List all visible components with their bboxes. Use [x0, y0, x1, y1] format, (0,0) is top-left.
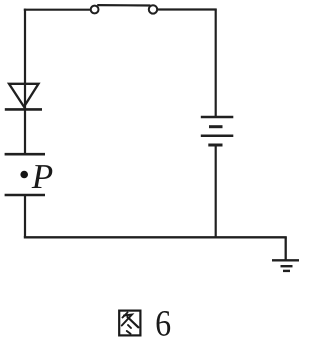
switch S right terminal circle [149, 5, 157, 13]
ground bar 2 [281, 265, 293, 267]
point P bullet [20, 171, 28, 179]
wire left lower vertical [24, 195, 26, 237]
switch S blade [97, 4, 150, 7]
wire top-left horizontal segment [24, 9, 91, 11]
ground bar 1 [272, 259, 299, 261]
switch S left terminal circle [91, 6, 99, 14]
caption character 图 (drawn) [119, 311, 140, 336]
capacitor top plate [5, 153, 45, 156]
battery short plate 2 (negative) [208, 144, 222, 147]
wire bottom horizontal [24, 236, 287, 238]
diode D triangle [9, 84, 39, 107]
battery long plate 1 (positive) [201, 116, 234, 119]
battery long plate 2 (positive) [201, 135, 234, 138]
battery short plate 1 (negative) [209, 125, 223, 128]
wire right vertical lower (battery to bottom wire) [215, 145, 217, 237]
wire left vertical (top corner down through diode to capacitor) [24, 9, 26, 154]
wire right vertical upper (top corner to battery) [215, 9, 217, 117]
wire ground stub vertical [285, 237, 287, 260]
diode D cathode bar [5, 108, 42, 111]
capacitor bottom plate [5, 194, 45, 197]
wire top-right horizontal segment [157, 8, 216, 10]
label P [32, 165, 53, 188]
ground bar 3 [283, 270, 290, 272]
caption numeral 6 [157, 311, 171, 336]
